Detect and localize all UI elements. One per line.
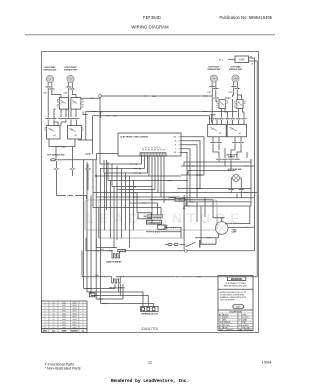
svg-text:1A10: 1A10 xyxy=(178,199,182,202)
switch S4 xyxy=(68,126,84,140)
svg-text:1 2 3 4 5 6 7 8 9 10 11 12: 1 2 3 4 5 6 7 8 9 10 11 12 xyxy=(141,148,161,150)
oven lamp xyxy=(215,222,228,235)
svg-text:TERMINAL BLOCK: TERMINAL BLOCK xyxy=(141,312,159,315)
connector row between switch rows xyxy=(45,118,51,120)
svg-text:BAKE ELEMENT: BAKE ELEMENT xyxy=(107,260,123,263)
svg-text:16: 16 xyxy=(52,305,54,307)
svg-text:W —: W — xyxy=(175,141,179,143)
connector row y169 xyxy=(54,168,60,170)
indicator connectors xyxy=(51,159,56,161)
sensor wire label box xyxy=(175,198,185,201)
oven area vertical feeders xyxy=(91,169,114,304)
oven sensor box xyxy=(147,220,162,224)
switch S1 xyxy=(57,98,68,110)
svg-text:14: 14 xyxy=(52,308,54,310)
left feeders down to bus xyxy=(82,238,86,277)
svg-text:Y —: Y — xyxy=(175,149,179,151)
wire mesh horizontals right xyxy=(184,159,251,162)
wires row1 to row2 xyxy=(54,109,76,118)
svg-text:4: 4 xyxy=(45,311,46,313)
svg-text:P2: P2 xyxy=(73,103,75,105)
svg-text:1021: 1021 xyxy=(113,116,117,118)
svg-text:TEMP: TEMP xyxy=(62,331,68,333)
small component box xyxy=(138,213,152,219)
connector row y159 xyxy=(216,158,222,160)
svg-text:10/04: 10/04 xyxy=(261,360,272,365)
ground strap xyxy=(200,243,216,245)
svg-text:5B: 5B xyxy=(192,166,194,168)
svg-text:6: 6 xyxy=(45,316,46,318)
top right supply plug box xyxy=(235,56,249,63)
lamp connectors xyxy=(228,189,234,191)
svg-text:H1: H1 xyxy=(219,133,221,135)
mesh verticals left bundle xyxy=(93,160,117,241)
wire label box above table xyxy=(89,293,95,297)
terminal block xyxy=(141,307,159,316)
switch S2 xyxy=(71,98,83,110)
capacitor bar xyxy=(199,240,201,248)
wire L1 bus xyxy=(99,95,102,98)
svg-text:7: 7 xyxy=(45,319,46,321)
supply bus lines xyxy=(84,289,154,307)
svg-text:P1: P1 xyxy=(211,129,213,131)
svg-text:GN/Y: GN/Y xyxy=(236,307,241,309)
svg-text:* Non-Illustrated Parts: * Non-Illustrated Parts xyxy=(45,367,81,371)
sensor harness comb xyxy=(147,215,163,217)
svg-text:3B: 3B xyxy=(134,193,136,195)
svg-text:RATING: RATING xyxy=(71,330,78,333)
svg-text:H2: H2 xyxy=(239,133,241,135)
svg-text:12: 12 xyxy=(52,311,54,313)
svg-text:H2: H2 xyxy=(75,135,77,137)
svg-text:SURFACE UNIT: SURFACE UNIT xyxy=(44,69,58,72)
sensor connector xyxy=(158,225,166,229)
svg-text:10: 10 xyxy=(52,314,54,316)
svg-text:0: 0 xyxy=(45,327,46,329)
surface unit coil right front xyxy=(67,75,74,88)
svg-text:8: 8 xyxy=(45,322,46,324)
wires between right rows xyxy=(216,99,244,118)
svg-text:18: 18 xyxy=(52,302,54,304)
svg-text:OR —: OR — xyxy=(174,152,179,154)
switch S5 xyxy=(208,125,227,137)
svg-text:1050: 1050 xyxy=(120,251,124,253)
svg-text:P2: P2 xyxy=(231,129,233,131)
svg-text:10: 10 xyxy=(52,327,54,329)
svg-text:3164177D1: 3164177D1 xyxy=(141,327,158,331)
svg-text:1030: 1030 xyxy=(152,96,156,98)
surface unit coil left front xyxy=(210,75,217,88)
key part box xyxy=(233,305,244,308)
connectors below row2 xyxy=(49,139,75,147)
svg-text:SURFACE UNIT: SURFACE UNIT xyxy=(208,68,222,71)
svg-text:P1: P1 xyxy=(50,130,52,132)
header rule xyxy=(25,34,275,36)
wires fanning from EOC right edge xyxy=(181,137,204,206)
oven outer box xyxy=(85,200,217,230)
switch S6 xyxy=(227,125,246,137)
wire labels right mesh xyxy=(243,165,249,167)
wire RF coil leads xyxy=(69,88,76,118)
svg-text:9: 9 xyxy=(45,325,46,327)
svg-text:2: 2 xyxy=(45,305,46,307)
wire LR coil leads xyxy=(232,88,241,100)
svg-text:ELECTRONIC OVEN CONTROL: ELECTRONIC OVEN CONTROL xyxy=(121,136,150,138)
svg-text:1070: 1070 xyxy=(62,147,66,149)
svg-text:YELLOW STRIPE.: YELLOW STRIPE. xyxy=(220,299,235,301)
svg-text:SURFACE UNIT: SURFACE UNIT xyxy=(229,68,243,71)
switch S3 xyxy=(45,126,60,140)
svg-text:GRN/YEL: GRN/YEL xyxy=(226,329,234,331)
svg-text:BEFORE SERVICING UNIT: BEFORE SERVICING UNIT xyxy=(224,286,248,288)
oven inner box xyxy=(99,200,184,239)
mesh verticals center (from EOC comb) xyxy=(142,156,165,215)
svg-text:3: 3 xyxy=(45,308,46,310)
sensor lower connectors xyxy=(152,231,158,233)
connectors below right switches xyxy=(210,142,216,144)
oven feed line y247.6 xyxy=(96,238,117,248)
svg-text:Publication No: 5995419495: Publication No: 5995419495 xyxy=(219,15,272,20)
connectors under coils xyxy=(45,86,51,88)
EOC bottom pin comb xyxy=(142,150,165,151)
svg-text:5: 5 xyxy=(45,314,46,316)
broil/bake drops to bus xyxy=(115,284,123,299)
svg-text:1: 1 xyxy=(45,302,46,304)
svg-text:1A1: 1A1 xyxy=(143,215,146,218)
bake element xyxy=(112,251,120,258)
wire drop from L1 bus xyxy=(99,97,101,164)
wire L2 bus xyxy=(86,111,238,113)
svg-text:P1 ●: P1 ● xyxy=(219,58,224,61)
svg-text:1020: 1020 xyxy=(239,59,245,62)
svg-text:SURFACE UNIT: SURFACE UNIT xyxy=(64,69,78,72)
svg-text:H1: H1 xyxy=(54,135,56,137)
secondary feeder line xyxy=(93,116,210,125)
svg-text:2B: 2B xyxy=(139,173,141,175)
light switch xyxy=(165,244,168,246)
svg-text:SWITCH: SWITCH xyxy=(228,157,236,159)
warning title box xyxy=(227,277,245,281)
left vertical feeders xyxy=(84,160,88,292)
svg-text:18: 18 xyxy=(52,316,54,318)
wire mesh horizontals left xyxy=(100,163,142,165)
svg-text:12: 12 xyxy=(52,325,54,327)
svg-text:OVEN SENSOR: OVEN SENSOR xyxy=(147,222,161,224)
vertical through oven xyxy=(183,195,185,249)
broil element xyxy=(112,277,120,283)
svg-text:P1: P1 xyxy=(61,103,63,105)
surface unit coil right rear xyxy=(46,75,53,88)
EOC box xyxy=(118,133,181,156)
wire right bus from plug xyxy=(249,58,258,277)
small switch R1a xyxy=(217,100,227,109)
wire RR coil leads xyxy=(48,88,61,118)
svg-text:AWG: AWG xyxy=(43,330,48,333)
indicator lamp xyxy=(233,175,240,182)
junction node xyxy=(185,249,188,252)
svg-text:FEF364D: FEF364D xyxy=(143,15,161,20)
svg-text:WIRING DIAGRAM: WIRING DIAGRAM xyxy=(131,25,169,30)
svg-text:WARNING: WARNING xyxy=(231,278,243,281)
lamp wires xyxy=(195,200,224,238)
wire from S2 to drop xyxy=(81,98,100,114)
svg-text:1060: 1060 xyxy=(95,275,99,277)
mesh verticals right xyxy=(184,159,251,206)
svg-text:104B: 104B xyxy=(64,93,68,95)
bake wire xyxy=(86,250,255,252)
svg-text:1050: 1050 xyxy=(100,249,104,251)
wire LF coil leads xyxy=(212,88,216,119)
svg-text:14: 14 xyxy=(52,322,54,324)
svg-text:LEADVENTURE: LEADVENTURE xyxy=(86,211,244,226)
svg-text:1010: 1010 xyxy=(99,112,103,114)
right connector row y118.8 xyxy=(210,118,216,120)
svg-text:BK —: BK — xyxy=(174,137,179,139)
broil wire xyxy=(82,276,257,278)
wire to oven area xyxy=(57,195,87,197)
svg-text:R —: R — xyxy=(175,145,179,147)
small switch R1b xyxy=(235,100,245,109)
svg-text:Rendered by LeadVenture, Inc.: Rendered by LeadVenture, Inc. xyxy=(111,378,189,384)
svg-text:16: 16 xyxy=(52,319,54,321)
svg-text:WHT/BLK: WHT/BLK xyxy=(244,329,253,331)
svg-text:P2: P2 xyxy=(71,130,73,132)
surface unit coil left rear xyxy=(232,75,239,88)
right connector row y98 xyxy=(213,97,219,99)
